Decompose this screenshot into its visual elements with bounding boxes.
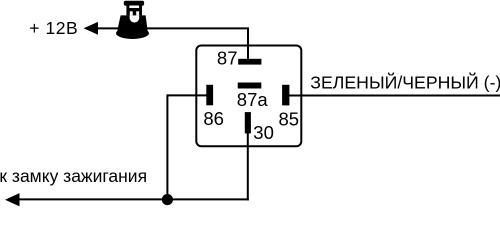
svg-text:к замку зажигания: к замку зажигания xyxy=(0,166,147,186)
fuse cap xyxy=(124,1,144,6)
relay K1 body xyxy=(196,46,301,147)
wire: bottom horizontal to ignition lock xyxy=(8,198,249,200)
contact pin 30 xyxy=(245,112,251,133)
fuse notch xyxy=(130,15,140,22)
svg-text:86: 86 xyxy=(203,108,224,129)
fuse F1 xyxy=(116,1,149,39)
coil pin 85 xyxy=(282,85,289,106)
svg-text:87a: 87a xyxy=(237,89,269,110)
wire: pin 30 vertical drop xyxy=(247,131,249,200)
fuse dome xyxy=(118,15,148,29)
wire: pin 86 stub to left turn xyxy=(167,94,207,96)
power arrow +12V xyxy=(84,22,98,35)
contact pin 87a xyxy=(238,83,262,89)
wire: +12V feed horizontal xyxy=(92,27,248,29)
svg-text:+ 12В: + 12В xyxy=(29,18,78,38)
arrow to ignition lock xyxy=(5,193,20,206)
wire: vertical drop to pin 87 xyxy=(247,27,249,60)
svg-text:ЗЕЛЕНЫЙ/ЧЕРНЫЙ (-): ЗЕЛЕНЫЙ/ЧЕРНЫЙ (-) xyxy=(310,72,500,93)
svg-text:85: 85 xyxy=(279,108,300,129)
wire: vertical down from pin 86 route xyxy=(166,94,168,199)
svg-text:87: 87 xyxy=(217,47,238,68)
wire: pin 85 to green/black lead xyxy=(289,95,500,97)
contact pin 87 xyxy=(238,59,261,65)
svg-text:30: 30 xyxy=(253,122,274,143)
junction dot xyxy=(162,194,173,205)
coil pin 86 xyxy=(206,85,213,106)
fuse neck block xyxy=(126,6,142,16)
